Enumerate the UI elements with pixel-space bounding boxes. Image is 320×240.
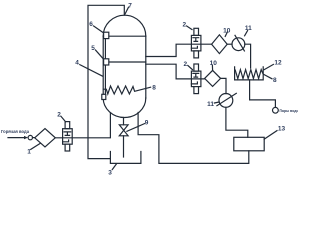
svg-text:7: 7 (128, 2, 132, 9)
svg-text:2: 2 (183, 61, 187, 68)
svg-text:12: 12 (274, 59, 282, 66)
svg-text:13: 13 (278, 126, 286, 133)
svg-text:8: 8 (152, 84, 156, 91)
svg-text:3: 3 (108, 169, 112, 176)
svg-text:11: 11 (245, 25, 252, 32)
svg-text:6: 6 (89, 21, 93, 28)
svg-text:9: 9 (145, 120, 149, 127)
svg-text:8: 8 (273, 77, 277, 84)
svg-text:Горячая вода: Горячая вода (1, 129, 30, 134)
svg-text:5: 5 (91, 45, 95, 52)
svg-text:2: 2 (182, 21, 186, 28)
svg-text:11: 11 (207, 101, 214, 108)
svg-text:10: 10 (210, 60, 218, 67)
svg-text:2: 2 (57, 111, 61, 118)
svg-text:Пары воды: Пары воды (280, 109, 299, 113)
svg-text:4: 4 (75, 60, 79, 67)
svg-text:1: 1 (27, 148, 31, 155)
svg-text:10: 10 (223, 27, 231, 34)
